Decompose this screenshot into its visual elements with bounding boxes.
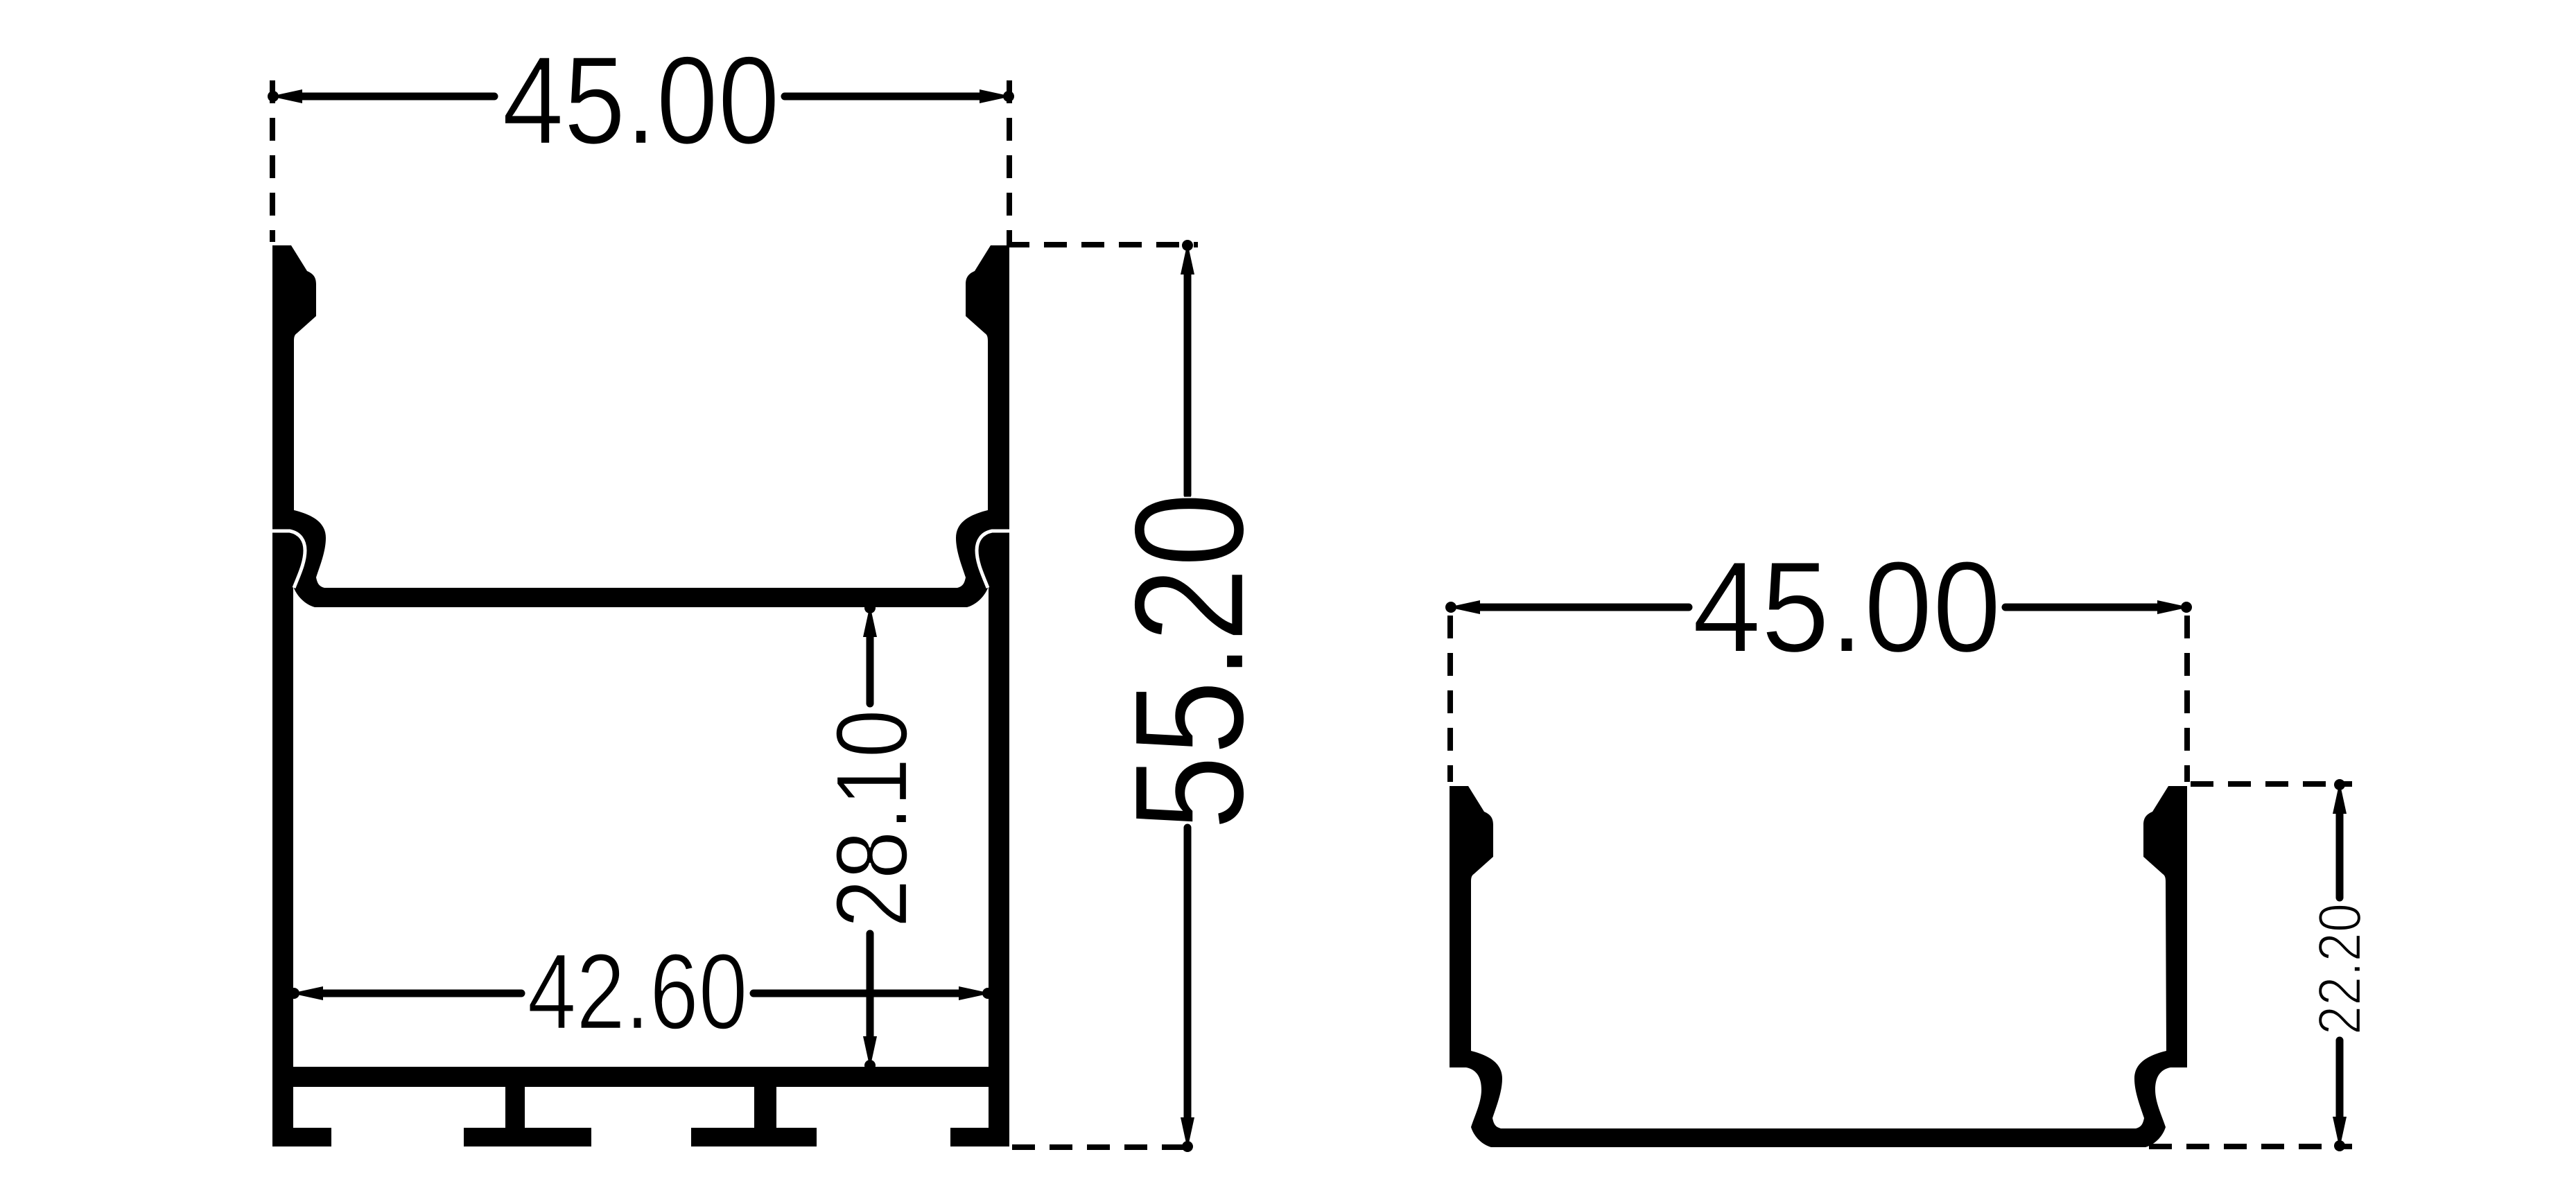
left view: extruded aluminium profile cross-section body (walls, top clip bulges, LED shelf, base plate, feet and T-ribs) bbox=[272, 245, 1009, 1146]
dim 55.20: top arrowhead bbox=[1181, 243, 1194, 274]
right view: bottom channel profile cross-section body (U-channel with clip bulges and ogee base corners) bbox=[1450, 786, 2187, 1147]
dim 22.20: bottom arrowhead bbox=[2333, 1117, 2347, 1149]
svg-text:22.20: 22.20 bbox=[2306, 903, 2374, 1035]
dim 45.00 (right view top): dashed extension lines bbox=[1450, 616, 2187, 782]
dim 55.20: dimension line segments bbox=[1184, 272, 1192, 1120]
svg-text:55.20: 55.20 bbox=[1102, 492, 1276, 830]
svg-text:28.10: 28.10 bbox=[815, 709, 928, 927]
dim 45.00 (left view top): right arrowhead bbox=[980, 89, 1011, 103]
dim 45.00 (left view top): dimension line segments bbox=[299, 93, 982, 101]
dim 22.20: dimension line segments bbox=[2336, 811, 2344, 1119]
dim 42.60 (inner width): left arrowhead bbox=[291, 986, 323, 1000]
dim 45.00 (right view): left arrowhead bbox=[1448, 600, 1480, 614]
dim 55.20 (left view height): dashed extension lines bbox=[1007, 245, 1198, 1147]
dim 45.00 (right view): right arrowhead bbox=[2157, 600, 2189, 614]
dim 42.60: right arrowhead bbox=[959, 986, 991, 1000]
left view: separation gap at left wall / shelf S-bend joint bbox=[271, 531, 305, 588]
svg-text:45.00: 45.00 bbox=[1692, 534, 2001, 679]
dim 28.10 (inner depth): top arrowhead bbox=[863, 605, 877, 637]
dim 28.10: bottom arrowhead bbox=[863, 1036, 877, 1068]
dim 22.20 (right view height): dashed extension lines bbox=[2149, 784, 2352, 1146]
left view: separation gap at right wall / shelf S-bend joint bbox=[977, 531, 1011, 588]
dim 45.00 (left view top): left arrowhead bbox=[270, 89, 302, 103]
svg-text:42.60: 42.60 bbox=[528, 932, 748, 1052]
svg-text:45.00: 45.00 bbox=[502, 30, 779, 171]
dim 42.60: dimension line segments bbox=[319, 990, 963, 997]
dim 55.20: bottom arrowhead bbox=[1181, 1117, 1194, 1149]
dim 22.20: top arrowhead bbox=[2333, 782, 2347, 814]
dim 45.00 (left view top): dashed extension lines bbox=[272, 80, 1009, 242]
dim 45.00 (right view): dimension line segments bbox=[1478, 604, 2163, 611]
dim 28.10: dimension line segments bbox=[867, 634, 874, 1039]
